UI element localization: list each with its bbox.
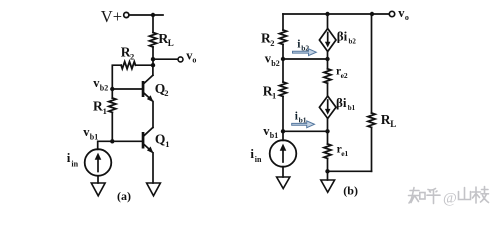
wire bbox=[152, 15, 154, 33]
transistor Q2 bbox=[142, 65, 154, 102]
svg-text:R: R bbox=[93, 99, 103, 114]
junction R2 (a) bbox=[151, 63, 155, 67]
wire to ground (a) bbox=[97, 176, 99, 183]
terminal V+ bbox=[124, 12, 129, 17]
wire bottom (b) bbox=[328, 170, 372, 172]
wire bbox=[371, 127, 373, 171]
junction top middle (b) bbox=[325, 12, 329, 16]
svg-text:2: 2 bbox=[130, 51, 134, 61]
wire to vo terminal (a) bbox=[153, 58, 178, 60]
arrow ib2 bbox=[293, 49, 317, 56]
svg-text:2: 2 bbox=[270, 38, 274, 48]
node vb1 (a) bbox=[110, 139, 114, 143]
svg-text:b1: b1 bbox=[270, 131, 278, 140]
wire to ground (b left) bbox=[282, 167, 284, 177]
wire bbox=[152, 47, 154, 65]
wire iin top (b) bbox=[282, 131, 284, 140]
resistor R2 (a) horizontal bbox=[121, 62, 135, 69]
svg-text:V+: V+ bbox=[101, 7, 122, 26]
svg-text:in: in bbox=[71, 159, 78, 168]
wire + junction mid vb2 (b) bbox=[327, 52, 329, 69]
wire R2 left + down to vb2 (a) bbox=[112, 65, 121, 89]
svg-text:(b): (b) bbox=[343, 183, 358, 197]
wire R2 right (a) bbox=[136, 64, 154, 66]
svg-text:1: 1 bbox=[272, 91, 276, 101]
svg-text:b2: b2 bbox=[100, 84, 108, 93]
terminal vo (a) bbox=[178, 57, 183, 62]
node vb2 (a) bbox=[110, 87, 114, 91]
wire R1 top (b) bbox=[282, 59, 284, 82]
resistor R1 (a) bbox=[109, 89, 116, 141]
svg-text:e2: e2 bbox=[341, 71, 348, 80]
wire vb1 (b) bbox=[283, 130, 328, 132]
svg-text:1: 1 bbox=[103, 106, 107, 116]
wire bbox=[282, 44, 284, 59]
wire vb2 to Q2 base (a) bbox=[112, 88, 142, 90]
dependent source beta-ib2 bbox=[319, 29, 336, 52]
wire Q1 emitter down bbox=[152, 153, 154, 183]
ground mid (b) bbox=[321, 180, 335, 192]
node vb1 (b) bbox=[281, 129, 285, 133]
svg-text:βi: βi bbox=[337, 28, 348, 43]
wire top (a) bbox=[129, 14, 163, 16]
svg-text:i: i bbox=[67, 150, 71, 165]
wire bbox=[327, 83, 329, 96]
arrow ib1 bbox=[292, 121, 315, 128]
svg-text:o: o bbox=[192, 56, 196, 65]
ground iin (a) bbox=[91, 183, 105, 196]
node vb2 (b) bbox=[281, 57, 285, 61]
node vo junction (a) bbox=[151, 57, 155, 61]
svg-text:Q: Q bbox=[155, 131, 166, 146]
svg-text:i: i bbox=[250, 146, 254, 161]
svg-text:(a): (a) bbox=[117, 189, 131, 203]
junction bottom (b) bbox=[325, 169, 329, 173]
wire vb1 (a) bbox=[98, 141, 142, 149]
svg-text:L: L bbox=[168, 38, 174, 48]
svg-text:L: L bbox=[390, 119, 396, 129]
wire left branch (b) bbox=[282, 14, 284, 30]
wire middle top (b) bbox=[327, 14, 329, 29]
current source iin (a) bbox=[85, 149, 112, 176]
svg-text:b2: b2 bbox=[349, 37, 357, 45]
svg-text:βi: βi bbox=[336, 95, 347, 110]
ground Q1 bbox=[147, 183, 161, 196]
junction top (a) bbox=[151, 13, 155, 17]
svg-text:o: o bbox=[405, 13, 409, 22]
ground iin (b) bbox=[277, 177, 290, 189]
transistor Q1 bbox=[142, 127, 154, 153]
resistor re1 bbox=[324, 144, 331, 158]
wire bbox=[282, 96, 284, 131]
terminal vo (b) bbox=[389, 11, 394, 16]
resistor RL (b) bbox=[368, 113, 375, 127]
resistor RL (a) bbox=[150, 33, 157, 48]
wire + junction mid vb1 (b) bbox=[327, 119, 329, 145]
wire bbox=[327, 158, 329, 171]
resistor re2 bbox=[324, 69, 331, 83]
current source iin (b) bbox=[270, 140, 297, 167]
wire to ground (b mid) bbox=[327, 171, 329, 180]
svg-text:e1: e1 bbox=[341, 149, 348, 158]
wire Q2 emitter to Q1 collector bbox=[152, 102, 154, 128]
resistor R2 (b) bbox=[280, 30, 287, 44]
dependent source beta-ib1 bbox=[319, 96, 336, 119]
svg-text:R: R bbox=[381, 112, 391, 127]
svg-text:b1: b1 bbox=[348, 104, 356, 112]
wire vb2 (b) bbox=[283, 58, 328, 60]
svg-text:b2: b2 bbox=[271, 59, 279, 68]
svg-text:2: 2 bbox=[164, 88, 168, 98]
wire right branch (b) bbox=[371, 14, 373, 113]
wire top (b) bbox=[283, 13, 389, 15]
junction top right (b) bbox=[370, 12, 374, 16]
svg-text:@: @ bbox=[443, 191, 457, 207]
svg-text:b1: b1 bbox=[90, 132, 98, 141]
svg-text:1: 1 bbox=[165, 139, 169, 149]
resistor R1 (b) bbox=[280, 82, 287, 96]
svg-text:in: in bbox=[255, 155, 262, 164]
watermark zhihu bbox=[409, 187, 489, 207]
